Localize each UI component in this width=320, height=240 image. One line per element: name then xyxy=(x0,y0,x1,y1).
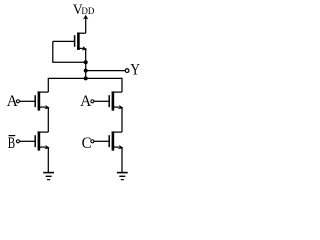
ground (right) xyxy=(117,173,128,180)
power VDD arrow xyxy=(83,15,88,33)
wire: left branch drain rail xyxy=(47,78,49,92)
wire: Q3 source to Q4 drain xyxy=(121,107,123,132)
wire: input A to Q1 gate xyxy=(20,100,35,102)
wire: gate-to-drain loop of M1 xyxy=(53,41,86,62)
node junction dot (output) xyxy=(84,69,88,73)
input terminal C xyxy=(82,135,94,152)
power VDD label xyxy=(73,2,95,18)
input terminal A (right) xyxy=(80,93,94,110)
wire: output to Y terminal xyxy=(86,70,125,72)
transistor Q3 (input A, right top) xyxy=(109,91,124,110)
node junction dot (gate loop) xyxy=(84,60,88,64)
wire: right branch drain rail xyxy=(121,78,123,92)
svg-text:DD: DD xyxy=(81,6,94,16)
wire: input A to Q3 gate xyxy=(94,100,109,102)
terminal circle Y xyxy=(125,69,129,73)
svg-text:Y: Y xyxy=(130,61,140,78)
wire: Q2 source to ground xyxy=(47,147,49,172)
wire: input C to Q4 gate xyxy=(94,140,109,142)
node junction dot (branch line) xyxy=(84,76,88,80)
input terminal A (left) xyxy=(7,93,20,110)
wire: Q1 source to Q2 drain xyxy=(47,107,49,132)
transistor Q1 (input A, left top) xyxy=(35,91,50,110)
svg-text:C: C xyxy=(82,135,92,152)
wire: parallel branch line xyxy=(48,77,122,79)
wire: Q4 source to ground xyxy=(121,147,123,172)
transistor Q4 (input C, right bottom) xyxy=(109,131,124,150)
svg-text:B: B xyxy=(8,135,15,152)
ground (left) xyxy=(43,173,54,180)
svg-text:A: A xyxy=(80,93,92,110)
transistor M1 (diode-connected NMOS load) xyxy=(53,33,88,52)
transistor Q2 (input B-bar, left bottom) xyxy=(35,131,50,150)
wire: M1 source rail down xyxy=(85,48,87,78)
wire: input B-bar to Q2 gate xyxy=(20,140,35,142)
input terminal B-bar xyxy=(8,135,20,152)
